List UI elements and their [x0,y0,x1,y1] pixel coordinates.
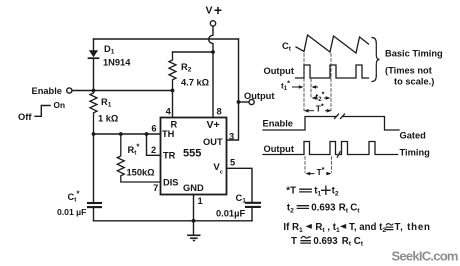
dimension T gated [305,172,331,176]
IC 555 U1 box [161,118,227,195]
ground [188,221,200,242]
svg-text:Ct*: Ct* [68,190,81,204]
svg-text:Enable: Enable [32,86,62,96]
svg-text:+: + [214,2,222,18]
wire pin1 lead [193,195,195,221]
svg-text:555: 555 [183,148,201,160]
svg-text:T*: T* [317,165,325,177]
svg-text:Output: Output [244,91,274,101]
label R2 [181,62,192,74]
svg-text:C1: C1 [236,193,247,205]
IC pin label Vc [213,162,223,175]
label (Times not [385,66,432,76]
resistor Rt [117,134,160,182]
svg-text:0.693: 0.693 [313,236,338,247]
svg-text:T: T [291,236,297,247]
label t1* [281,78,290,92]
IC pin label OUT [203,137,223,147]
svg-text:8: 8 [217,106,222,116]
IC pin label DIS [163,178,179,188]
label Enable waveform [263,118,293,128]
label Ct* [68,190,81,204]
svg-text:T*: T* [316,101,324,113]
label to scale.) [394,77,434,87]
svg-text:150kΩ: 150kΩ [127,168,156,178]
value label 150kOhm [127,168,156,178]
resistor R2 [169,52,176,91]
label T* gated [317,165,325,177]
label D1 [104,44,115,56]
capacitor Ct [88,203,101,221]
svg-text:D1: D1 [104,44,115,56]
label Output terminal [244,91,274,101]
label Rt* [128,143,141,157]
formula line 2: t2 = 0.693 Rt Ct [287,203,360,215]
svg-text:R1: R1 [101,97,112,109]
svg-text:1 kΩ: 1 kΩ [98,114,119,124]
svg-text:t2: t2 [287,203,294,215]
wire pin5 lead [227,168,253,202]
pin number 5 [230,158,235,168]
wire output stub [239,101,250,103]
wire TH line [94,133,161,135]
dashed line gated T right [331,157,333,173]
waveform Ct sawtooth [296,35,369,53]
node Rt/TH junction [119,132,123,136]
wire V+ lead with crossover hop [209,26,213,117]
label On [54,100,66,110]
svg-text:Timing: Timing [400,147,431,157]
svg-text:Gated: Gated [400,130,427,140]
diode D1 [89,50,99,90]
waveform enable gated [263,117,337,131]
pin number 8 [217,106,222,116]
dimension T basic [304,109,332,113]
power terminal V+ circle [210,21,215,26]
label Output gated [264,144,294,154]
svg-text:V+: V+ [207,119,220,131]
pin number 7 [153,183,158,193]
svg-text:Enable: Enable [263,118,293,128]
wire bottom rail [94,220,253,222]
dashed line gated T left [304,157,306,173]
dimension t2 [312,96,331,100]
wire pin3 / output vertical [227,39,239,140]
svg-text:On: On [54,100,66,110]
label Enable [32,86,62,96]
svg-text:Rt: Rt [342,236,352,248]
label T* basic [316,101,324,113]
waveform output basic [296,65,369,78]
pin number 3 [229,132,234,142]
value label 4.7 kOhm [181,78,210,88]
svg-text:0.01 µF: 0.01 µF [57,207,86,217]
label R1 [101,97,112,109]
node diode/R1/enable junction [92,89,96,93]
svg-text:Off: Off [18,112,32,122]
value label 1N914 [103,58,131,68]
pin number 6 [151,124,156,134]
IC pin label TH [162,129,175,139]
svg-text:6: 6 [151,124,156,134]
svg-text:0.01µF: 0.01µF [216,209,245,219]
switch waveform Off/On symbol [35,106,50,117]
svg-text:If R1: If R1 [283,222,303,234]
svg-text:Rt*: Rt* [128,143,141,157]
svg-text:T, then: T, then [395,222,431,233]
svg-text:2: 2 [151,145,156,155]
IC pin label GND [183,183,204,193]
svg-text:t2: t2 [332,186,339,198]
label Basic Timing [385,49,443,59]
svg-text:*T: *T [286,186,296,197]
svg-text:4.7 kΩ: 4.7 kΩ [181,78,210,88]
svg-text:OUT: OUT [203,137,223,147]
label Output basic [264,66,294,76]
formula line 1: *T = t1 + t2 [286,186,339,198]
IC pin label V+ [207,119,220,131]
terminal Enable circle [67,88,72,93]
svg-text:V: V [206,5,213,17]
svg-text:(Times not: (Times not [385,66,432,76]
label C1 [236,193,247,205]
svg-text:SeekIC.com: SeekIC.com [392,249,458,264]
svg-text:7: 7 [153,183,158,193]
label Off [18,112,32,122]
svg-text:Output: Output [264,66,294,76]
wire diode top lead [93,39,95,50]
power terminal V+ label [206,2,223,18]
dashed line t1 [310,79,312,98]
wire enable line [72,90,173,92]
svg-text:GND: GND [183,183,204,193]
svg-text:T, and t2: T, and t2 [349,222,386,234]
capacitor Ct lead [93,134,95,202]
svg-text:t1: t1 [314,186,321,198]
IC pin label R [171,120,178,130]
value label 1 kOhm [98,114,119,124]
node pin8/R2 junction [211,50,215,54]
resistor R1 [90,91,97,135]
svg-text:Ct: Ct [354,236,364,248]
wire TR branch [147,134,161,155]
IC pin label TR [163,151,176,161]
formula line 4: T ~= 0.693 Rt Ct [291,236,364,248]
label Gated [400,130,427,140]
wire pin4 lead [172,91,174,118]
value label 0.01 uF left [57,207,86,217]
svg-text:4: 4 [166,106,172,116]
formula line 3: If R1 << Rt, t1 << T, and t2 ~ T, then [283,222,430,234]
svg-text:5: 5 [230,158,235,168]
IC name 555 [183,148,201,160]
svg-text:Rt: Rt [339,203,349,215]
node output junction [237,100,241,104]
brace basic timing [372,38,380,82]
svg-text:1: 1 [198,196,203,206]
label Timing [400,147,431,157]
svg-text:Vc: Vc [213,162,223,175]
pin number 4 [166,106,172,116]
svg-text:TH: TH [162,129,175,139]
watermark SeekIC.com [392,249,458,264]
svg-text:Ct: Ct [350,203,360,215]
pin number 1 [198,196,203,206]
node R1/TH/Ct junction [92,132,96,136]
capacitor C1 [246,203,260,221]
node TR branch junction [145,132,149,136]
terminal Output circle [249,99,254,104]
value label 0.01uF right [216,209,245,219]
svg-text:R: R [171,120,178,130]
svg-text:TR: TR [163,151,176,161]
svg-text:Basic Timing: Basic Timing [385,49,443,59]
svg-text:1N914: 1N914 [103,58,131,68]
wire R2 top line [173,51,214,53]
svg-text:3: 3 [229,132,234,142]
label t2* [316,90,325,104]
dashed line t0 [303,54,305,111]
svg-text:t1*: t1* [281,78,290,92]
svg-text:Ct: Ct [282,41,292,53]
svg-text:R2: R2 [181,62,192,74]
wire top rail (D1 anode to output corner) [94,38,239,40]
dashed line t2 [330,54,332,111]
node pin1/bottom rail junction [192,219,196,223]
svg-text:DIS: DIS [163,178,179,188]
svg-text:Output: Output [264,144,294,154]
dimension t1 [293,85,318,89]
svg-text:Rt , t1: Rt , t1 [315,222,340,234]
pin number 2 [151,145,156,155]
svg-text:0.693: 0.693 [311,203,336,214]
waveform output gated [263,142,337,155]
label Ct waveform [282,41,292,53]
svg-text:to scale.): to scale.) [394,77,434,87]
node R2/pin4/enable junction [171,89,175,93]
